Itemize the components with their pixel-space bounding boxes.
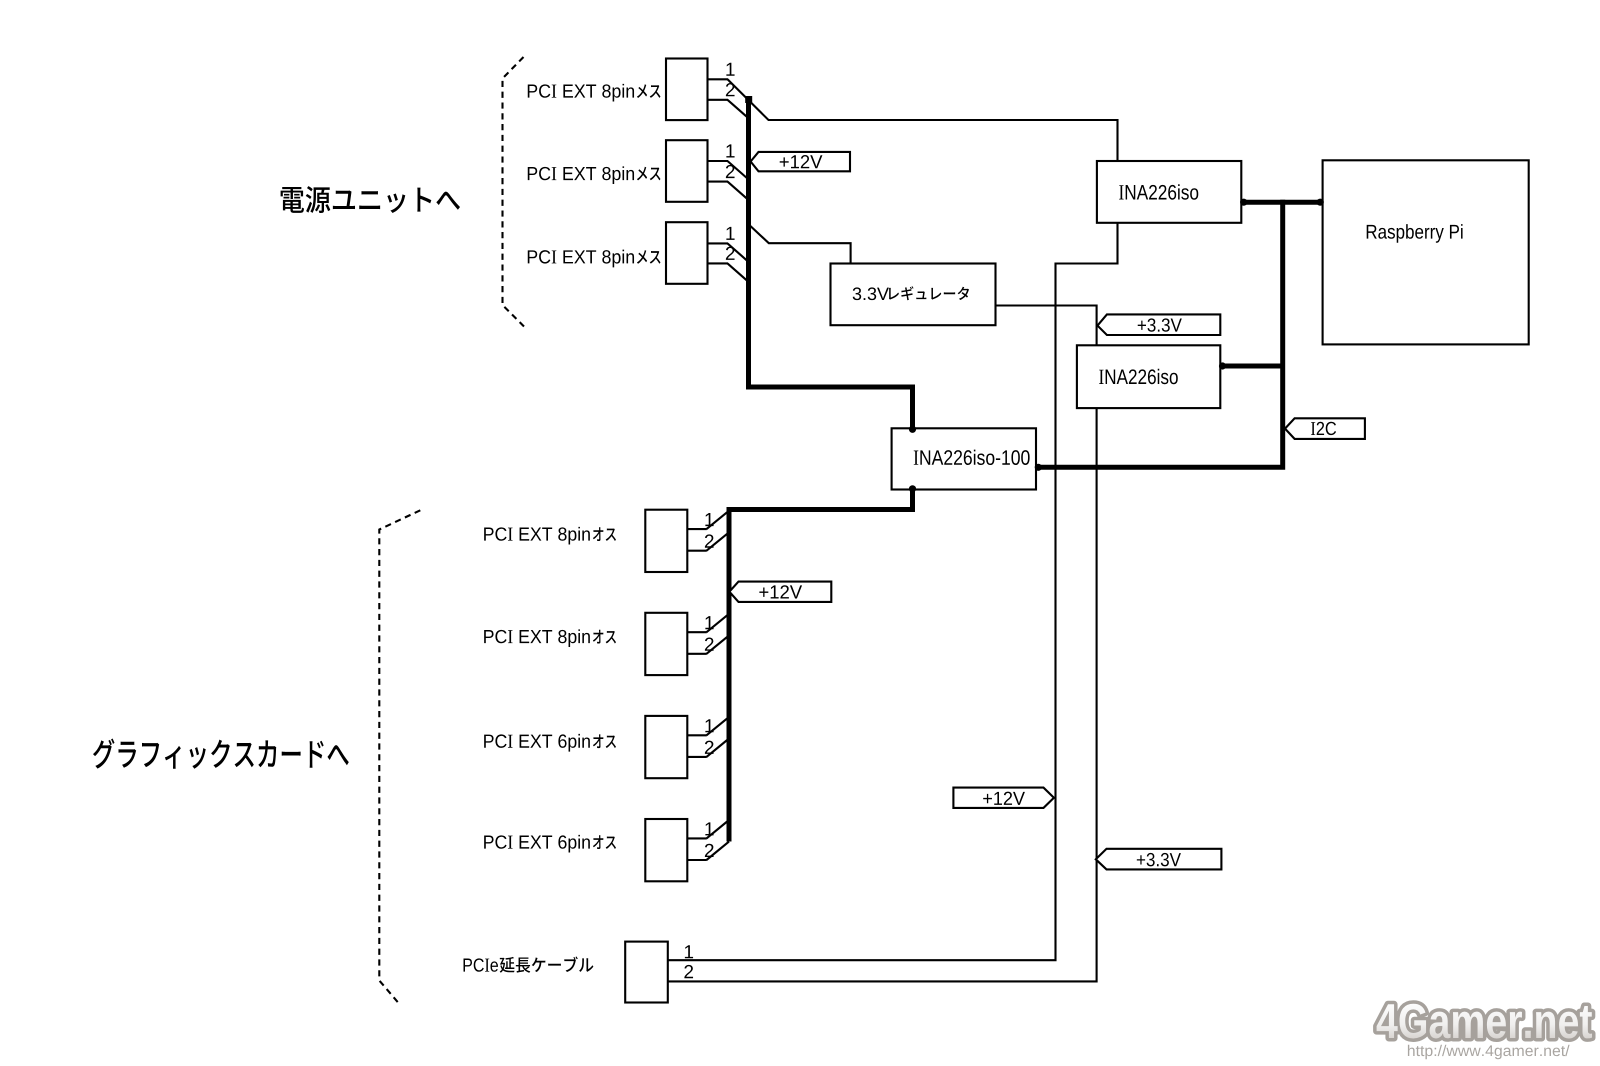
wire P4 pin1 diagonal to +12V bus [707,820,730,838]
pin 1 of P2 [705,616,713,629]
connector J3: PCI EXT 8pin female [666,222,708,284]
wire J2 pin2 diagonal to +12V bus [728,182,749,200]
module U4: Raspberry Pi [1323,160,1529,344]
label group: to graphics card [93,739,349,769]
label P4 [484,835,590,853]
wire P3 pin2 stub [687,756,707,758]
wire P4 pin1 stub [687,837,707,839]
label P1 suffix "male" [593,527,616,541]
label U4 value Raspberry Pi [1367,224,1463,243]
wire P1 pin2 diagonal to +12V bus [707,532,730,550]
module U2: INA226iso [1077,345,1220,408]
label P2 suffix "male" [593,630,616,644]
wire P4 pin2 diagonal to +12V bus [707,842,730,860]
wire P1 pin1 stub [687,528,707,530]
label J2 suffix "female" [637,167,661,181]
connector P2: PCI EXT 8pin male [645,613,687,675]
label P3 [484,734,590,752]
wire J3 pin1 stub [708,242,729,244]
junction node: U2 output [1219,362,1226,369]
label J3 suffix "female" [637,250,661,264]
pin 2 of J3 [726,247,735,260]
wire P3 pin2 diagonal to +12V bus [707,739,730,757]
wire P3 pin1 stub [687,734,707,736]
wire P2 pin1 diagonal to +12V bus [707,614,730,632]
net flag +12V (bottom, sense line) [953,788,1054,808]
wire J1 pin2 diagonal to +12V bus [728,100,749,118]
pin 2 of P2 [705,638,714,651]
label flag +12V top [780,155,823,168]
label P5 (PCIe) [464,958,498,971]
pin 1 of J1 [726,63,734,76]
junction node: INA226iso-100 output [909,485,916,492]
pin 2 of P4 [705,844,714,857]
connector P1: PCI EXT 8pin male [645,510,687,572]
label U2 value INA226iso [1099,369,1178,384]
label flag +12V bottom [983,792,1025,805]
label P4 suffix "male" [593,835,616,849]
pin 1 of P1 [705,513,713,526]
wire connector J1 pin1 stub [708,78,729,80]
label P3 suffix "male" [593,734,616,748]
connector P3: PCI EXT 6pin male [645,716,687,778]
logo url caption [1408,1045,1570,1059]
wire J3 pin1 diagonal to +12V bus [728,243,749,261]
wire J1 pin2 stub [708,99,729,101]
label U1 value INA226iso [1119,184,1198,199]
wire J3 pin2 stub [708,262,729,264]
wire J2 pin1 stub [708,160,729,162]
wire P1 pin1 diagonal to +12V bus [707,511,730,529]
wire J2 pin1 diagonal to +12V bus [728,161,749,179]
module U3: INA226iso-100 [892,428,1036,489]
label group: to PSU unit [281,186,460,213]
pin 2 of J2 [726,165,735,178]
wire J2 pin2 stub [708,181,729,183]
net flag +12V (top, on PSU bus) [751,152,850,171]
dashed brace: PSU group [503,57,525,327]
pin 2 of P3 [705,741,714,754]
wire P3 pin1 diagonal to +12V bus [707,717,730,735]
junction node: INA226iso-100 I2C [1035,464,1042,471]
logo 4Gamer.net [1377,1004,1592,1039]
module U5: 3.3V regulator [831,264,996,326]
junction node: INA226iso-100 input [909,426,916,433]
label flag +3.3V bottom [1137,853,1181,866]
pin 1 of P5 [685,945,693,958]
wire thick +12V bus (graphics card side) from INA226iso-100 output [729,488,913,842]
net flag +12V (lower bus, graphics side) [729,582,831,602]
connector P4: PCI EXT 6pin male [645,819,687,881]
label P5 suffix "extension cable" [500,957,594,973]
net flag +3.3V (top, regulator output) [1098,314,1221,335]
wire 3.3V regulator output (+3.3V), down behind INA226iso U2 to PCIe cable pin2 [668,306,1097,982]
pin 2 of P1 [705,534,714,547]
module U1: INA226iso [1097,161,1241,223]
label J1 suffix "female" [637,84,661,98]
connector J1: PCI EXT 8pin female [666,59,708,121]
wire P2 pin1 stub [687,631,707,633]
label J3 [528,250,634,268]
label U5 suffix "regulator" [889,286,969,300]
wire thick I2C trunk: INA226iso-100 to Raspberry Pi wire [1036,200,1283,468]
junction node: Raspberry Pi input [1317,199,1324,206]
label J2 [528,166,634,184]
dashed brace: graphics card group [379,510,420,1003]
label flag +12V lower bus [759,585,802,598]
pin 1 of P4 [705,822,713,835]
junction node: U1 output [1240,199,1247,206]
wire thick +12V bus (PSU side) into INA226iso-100 input [749,99,913,431]
pin 1 of J2 [726,144,734,157]
net flag +3.3V (bottom) [1096,849,1222,870]
connector J2: PCI EXT 8pin female [666,140,708,202]
wire P2 pin2 stub [687,653,707,655]
label P1 [484,527,590,545]
wire J3 pin2 diagonal to +12V bus [728,263,749,281]
pin 2 of P5 [684,965,693,978]
label J1 [528,84,634,102]
label U3 value INA226iso-100 [914,450,1030,465]
label flag +3.3V top [1138,318,1182,331]
pin 1 of J3 [726,227,734,240]
connector P5: PCIe extension cable [625,942,668,1003]
pin 2 of J1 [726,83,735,96]
net flag I2C [1285,418,1365,439]
label P2 [484,629,590,647]
wire P1 pin2 stub [687,550,707,552]
label flag I2C [1311,422,1336,435]
wire J1 pin1 to INA226iso U1 input (+12V sense), down to PCIe cable pin1 [668,79,1118,960]
wire P2 pin2 diagonal to +12V bus [707,635,730,653]
wire thick INA226iso U2 output to I2C trunk [1220,364,1282,369]
wire P4 pin2 stub [687,859,707,861]
label U5 value 3.3V [853,287,889,300]
wire thick INA226iso U1 output to Raspberry Pi [1241,200,1322,205]
pin 1 of P3 [705,719,713,732]
junction node: +12V bus top [745,96,752,103]
wire +12V bus tap to 3.3V regulator input [750,226,851,264]
